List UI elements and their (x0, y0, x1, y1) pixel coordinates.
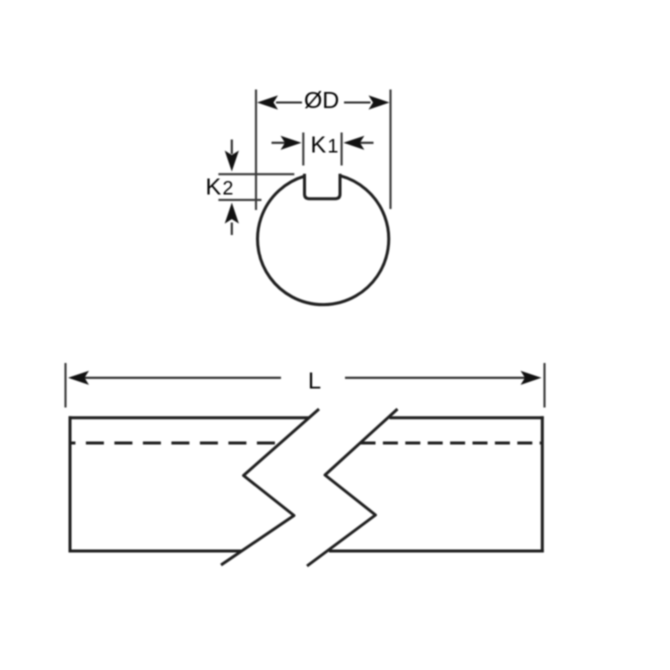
shaft right edge (541, 416, 544, 552)
svg-text:K: K (311, 131, 327, 157)
break line right zigzag (307, 409, 398, 566)
shaft bottom edge left part (69, 550, 242, 553)
dimension line OD right segment with arrow (344, 101, 371, 103)
keyway hidden dashed line right part (361, 442, 542, 445)
extension line right for length L (543, 363, 545, 408)
K2 down arrow (231, 140, 233, 155)
extension line right for keyway width K1 (341, 133, 343, 166)
break line left zigzag (221, 409, 319, 565)
svg-text:K: K (206, 174, 222, 200)
extension line left for keyway width K1 (302, 133, 304, 166)
K1 right arrow (359, 142, 374, 144)
shaft top edge right part (390, 416, 544, 419)
extension line left for length L (64, 363, 66, 408)
keyway slot (305, 174, 341, 199)
extension line left for diameter (255, 90, 257, 211)
dimension line L right segment with arrow (345, 377, 525, 379)
svg-text:L: L (308, 367, 321, 393)
dimension line OD left segment with arrow (276, 101, 302, 103)
svg-text:1: 1 (328, 135, 339, 157)
K2 up arrow (231, 223, 233, 236)
K1 left arrow (272, 142, 287, 144)
shaft top edge left part (69, 416, 310, 419)
shaft side view: left edge (69, 416, 72, 552)
K2 top extension line (218, 173, 294, 175)
svg-text:ØD: ØD (304, 87, 339, 113)
svg-text:2: 2 (223, 178, 234, 200)
shaft cross-section circle (258, 176, 389, 305)
shaft bottom edge right part (329, 550, 544, 553)
extension line right for diameter (389, 90, 391, 210)
keyway hidden dashed line left part (70, 442, 280, 445)
K2 bottom extension line (218, 199, 261, 201)
dimension line L left segment with arrow (83, 377, 281, 379)
